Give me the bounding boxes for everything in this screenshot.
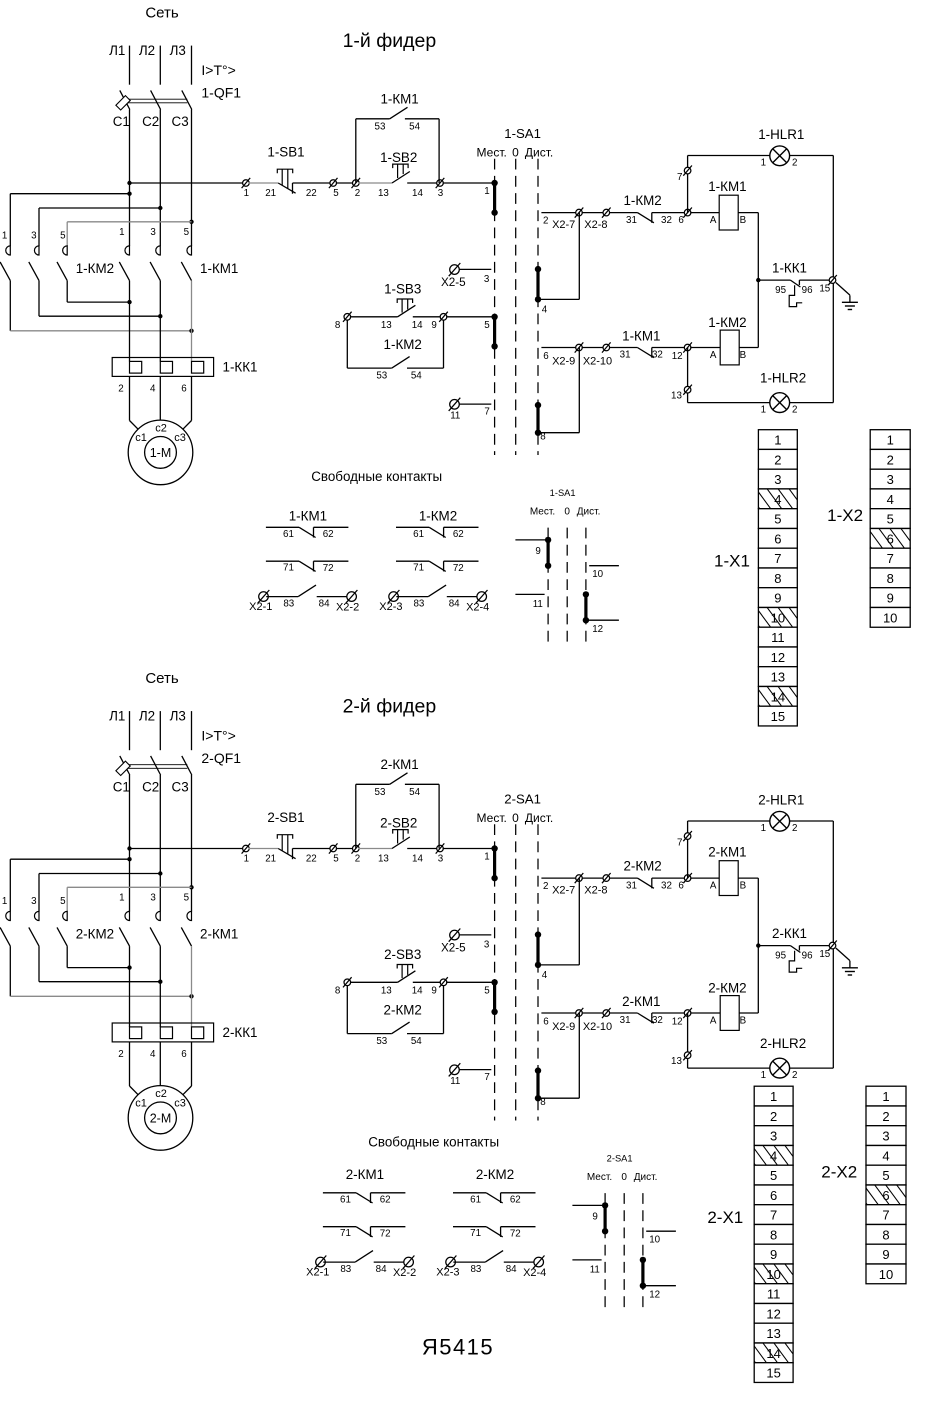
svg-text:13: 13 [671, 1056, 682, 1067]
svg-text:13: 13 [766, 1326, 780, 1341]
wire term7 branch [687, 156, 689, 213]
wire SB3 to term9 [413, 981, 441, 983]
wire to HLR1 [688, 820, 770, 822]
svg-text:2-КМ2: 2-КМ2 [708, 981, 746, 996]
wire C1 column [129, 775, 131, 911]
button 1-SB3 contact [398, 305, 416, 317]
terminal 7 [683, 166, 692, 176]
wire KM2 pole1 out [9, 281, 11, 331]
wire KM1 54 out [405, 118, 439, 120]
svg-text:5: 5 [333, 853, 339, 864]
wire KM2 54 out [407, 367, 444, 369]
svg-text:5: 5 [184, 893, 190, 904]
svg-text:2-КМ2: 2-КМ2 [476, 1167, 514, 1182]
wire SA1 row2 [541, 877, 576, 879]
switch 2-SA1 aux line Дист. [642, 1193, 644, 1307]
svg-text:2: 2 [792, 1070, 797, 1081]
svg-text:X2-3: X2-3 [379, 601, 402, 613]
switch 2-SA1 position line Мест. [494, 824, 496, 1120]
svg-text:2-SB1: 2-SB1 [267, 810, 304, 825]
wire KM2 pole5 feed [66, 222, 68, 246]
svg-text:2-КМ2: 2-КМ2 [384, 1002, 422, 1017]
button 2-SB1 actuator [277, 835, 292, 855]
svg-text:7: 7 [887, 551, 894, 566]
wire to SB1 [249, 848, 279, 850]
wire term3 to SA1 [443, 182, 495, 184]
svg-text:3: 3 [882, 1129, 889, 1144]
terminal 8 [343, 312, 352, 322]
wire SA1 aux 10 [589, 565, 619, 567]
wire KK1 to motor c3 [191, 1042, 193, 1086]
svg-text:2: 2 [887, 452, 894, 467]
wire SA1 aux 9 [572, 1204, 605, 1206]
svg-text:11: 11 [590, 1265, 600, 1276]
svg-text:83: 83 [283, 598, 294, 609]
terminal X2-10 [602, 1008, 611, 1018]
svg-text:13: 13 [381, 985, 392, 996]
svg-text:3: 3 [770, 1129, 777, 1144]
wire to HLR2 [688, 402, 770, 404]
svg-text:2-КМ1: 2-КМ1 [200, 927, 238, 942]
svg-text:31: 31 [626, 881, 637, 892]
svg-text:53: 53 [375, 121, 386, 132]
wire term8 to SB3 [350, 316, 398, 318]
wire coil KM2 up [757, 946, 759, 1013]
svg-text:1: 1 [244, 188, 249, 199]
wire motor c1 slant [130, 421, 139, 430]
wire KM2 pole3 out [38, 281, 40, 317]
wire KM2 pole1 to phase3 [10, 330, 191, 332]
wire branch down from term8 [346, 985, 348, 1034]
svg-text:61: 61 [283, 529, 294, 540]
terminal 2 [352, 178, 361, 188]
svg-text:95: 95 [775, 285, 786, 296]
svg-text:1-SA1: 1-SA1 [504, 126, 541, 141]
svg-text:5: 5 [60, 231, 66, 242]
svg-text:с3: с3 [174, 1098, 186, 1110]
svg-text:53: 53 [376, 1036, 387, 1047]
svg-text:1: 1 [244, 854, 249, 865]
svg-text:2-X2: 2-X2 [821, 1163, 857, 1182]
wire phase3 to KK1 [191, 946, 193, 1027]
svg-text:5: 5 [484, 986, 490, 997]
wire 2-КМ1 71 left [323, 1226, 356, 1228]
svg-text:84: 84 [449, 598, 460, 609]
svg-text:7: 7 [882, 1208, 889, 1223]
hatching cell 6 [852, 1184, 923, 1206]
svg-text:6: 6 [882, 1188, 889, 1203]
button 2-SB2 contact [392, 837, 410, 849]
contact 1-КК1 95-96 [789, 280, 802, 307]
svg-text:I>T°>: I>T°> [201, 728, 235, 744]
svg-text:22: 22 [306, 853, 317, 864]
svg-text:X2-10: X2-10 [583, 1021, 612, 1033]
wire branch down to term3 [438, 784, 440, 848]
svg-text:2-КК1: 2-КК1 [223, 1025, 258, 1040]
junction coils B [756, 943, 760, 947]
wire KM1 54 out [405, 783, 439, 785]
svg-text:1: 1 [887, 433, 894, 448]
terminal 1 [242, 843, 251, 853]
junction C1/control [127, 846, 131, 850]
terminal X2-3 [445, 1256, 457, 1269]
svg-text:12: 12 [771, 650, 785, 665]
wire coil KM2 out [739, 1012, 758, 1014]
terminal 8 [343, 977, 352, 987]
switch 2-SA1 contact 11-12 [640, 1257, 646, 1289]
wire SA1 aux 10 [646, 1230, 676, 1232]
svg-text:X2-9: X2-9 [552, 355, 575, 367]
wire KM2 pole1 feed [9, 859, 11, 911]
ground [842, 961, 858, 975]
svg-text:3: 3 [31, 896, 37, 907]
contact 1-КМ2 53-54 [392, 357, 410, 369]
svg-text:1: 1 [882, 1089, 889, 1104]
contact 1-КМ1 83-84 [298, 585, 316, 597]
wire C1 column [129, 110, 131, 246]
svg-text:Л1: Л1 [109, 709, 125, 724]
wire branch up from term2 [355, 784, 357, 848]
wire 1-КМ2 72 right [444, 560, 479, 562]
svg-text:X2-4: X2-4 [466, 602, 489, 614]
switch 2-SA1 contact 5-6 [491, 979, 497, 1015]
terminal X2-5 [449, 929, 461, 942]
wire KM1 32 to term12 [652, 1012, 688, 1014]
svg-text:2-КМ1: 2-КМ1 [708, 845, 746, 860]
wire C2 to KM2 pole3 [39, 207, 160, 209]
svg-text:72: 72 [510, 1228, 521, 1239]
button 1-SB1 contact [278, 183, 295, 194]
svg-text:9: 9 [887, 591, 894, 606]
svg-text:12: 12 [592, 624, 603, 635]
svg-text:2: 2 [543, 216, 548, 227]
wire row8 up to row6 [578, 348, 580, 433]
svg-text:1-QF1: 1-QF1 [201, 84, 241, 100]
wire coil KM1 out [738, 212, 758, 214]
svg-text:9: 9 [431, 320, 436, 331]
wire right rail [832, 156, 834, 403]
svg-text:8: 8 [335, 320, 341, 331]
svg-text:Л3: Л3 [170, 43, 186, 58]
switch 2-SA1 contact 7-8 [535, 1067, 541, 1101]
hatching cell 4 [740, 1145, 811, 1167]
wire 1-КМ1 71 left [266, 560, 299, 562]
svg-text:15: 15 [766, 1366, 780, 1381]
svg-text:1-КК1: 1-КК1 [772, 261, 807, 276]
svg-text:4: 4 [542, 970, 548, 981]
svg-text:6: 6 [543, 1017, 549, 1028]
terminal X2-1 [258, 590, 270, 603]
svg-text:61: 61 [470, 1194, 481, 1205]
wire KM2 pole5 to phase1 [67, 967, 129, 969]
svg-text:11: 11 [533, 599, 543, 610]
wire term11 to SA1 [459, 1069, 491, 1071]
wire SA1 aux 9 [515, 539, 548, 541]
svg-text:13: 13 [771, 670, 785, 685]
wire KM2 pole5 feed [66, 887, 68, 911]
svg-text:2: 2 [774, 452, 781, 467]
svg-text:4: 4 [542, 305, 548, 316]
terminal 6 [683, 873, 692, 883]
wire right rail [832, 821, 834, 1068]
svg-text:4: 4 [150, 1049, 156, 1060]
terminal X2-9 [575, 1008, 584, 1018]
svg-text:84: 84 [376, 1264, 387, 1275]
svg-text:71: 71 [340, 1228, 351, 1239]
hatching cell 14 [740, 1342, 811, 1364]
wire phase3 to KK1 [191, 281, 193, 362]
hatching cell 4 [744, 488, 815, 510]
wire term8 to SB3 [350, 981, 398, 983]
wire C1 to KM2 pole1 [10, 858, 129, 860]
svg-text:2-SA1: 2-SA1 [607, 1154, 633, 1164]
wire X2-7 to X2-8 [582, 877, 604, 879]
switch 1-SA1 aux line Мест. [547, 528, 549, 642]
svg-text:X2-8: X2-8 [584, 885, 607, 897]
terminal 3 [436, 843, 445, 853]
wire coil KM1 down [757, 213, 759, 281]
wire motor c1 slant [130, 1086, 139, 1095]
wire KM2 pole1 feed [9, 194, 11, 246]
terminal 7 [683, 831, 692, 841]
svg-text:83: 83 [470, 1264, 481, 1275]
terminal X2-2 [403, 1256, 415, 1269]
svg-text:В: В [740, 350, 747, 361]
junction C2/KM2 feed [158, 206, 162, 210]
svg-text:83: 83 [413, 598, 424, 609]
svg-text:2: 2 [355, 853, 360, 864]
contact 1-КМ1 31-32 [637, 348, 654, 358]
svg-text:3: 3 [31, 231, 37, 242]
terminal X2-1 [315, 1256, 327, 1269]
svg-text:2: 2 [882, 1109, 889, 1124]
svg-text:Сеть: Сеть [145, 670, 179, 687]
svg-text:X2-7: X2-7 [552, 219, 575, 231]
terminal X2-3 [388, 590, 400, 603]
wire KK1 to motor c2 [159, 1042, 161, 1086]
button 2-SB2 actuator [393, 830, 408, 844]
svg-text:2-КМ2: 2-КМ2 [76, 927, 114, 942]
svg-text:7: 7 [484, 1072, 489, 1083]
svg-text:12: 12 [672, 1017, 683, 1028]
wire KM2 pole1 to phase3 [10, 995, 191, 997]
wire SB1 to term5 [293, 182, 331, 184]
svg-text:9: 9 [774, 591, 781, 606]
svg-text:1: 1 [770, 1089, 777, 1104]
wire 2-КМ2 62 right [501, 1192, 536, 1194]
terminal 9 [439, 312, 448, 322]
wire HLR1 to rail [790, 820, 834, 822]
svg-text:83: 83 [340, 1264, 351, 1275]
wire to KM1 53 [356, 783, 390, 785]
svg-text:2: 2 [118, 1049, 123, 1060]
svg-text:3: 3 [150, 227, 156, 238]
svg-text:5: 5 [60, 896, 66, 907]
terminal 5 [329, 843, 338, 853]
junction phase2 [158, 314, 162, 318]
wire term3 to SA1 [443, 848, 495, 850]
svg-text:5: 5 [484, 320, 490, 331]
svg-text:2: 2 [792, 404, 797, 415]
svg-text:1-КМ2: 1-КМ2 [76, 261, 114, 276]
wire KM2 pole3 feed [38, 874, 40, 912]
terminal 6 [683, 208, 692, 218]
wire 1-КМ2 83 left [396, 596, 428, 598]
wire KM2 32 to term6 [652, 212, 688, 214]
wire KM2 pole3 out [38, 946, 40, 982]
contactor 1-КМ2 pole 3 [29, 246, 39, 281]
switch 1-SA1 position line 0 [515, 159, 517, 455]
contactor 1-КМ2 pole 5 [57, 246, 67, 281]
wire SB1 to term5 [293, 848, 331, 850]
switch 1-SA1 contact 5-6 [491, 314, 497, 350]
coil 2-КМ2 [720, 996, 739, 1031]
svg-text:10: 10 [766, 1267, 780, 1282]
wire 1-КМ1 83 left [266, 596, 298, 598]
wire 2-КМ1 72 right [371, 1226, 406, 1228]
wire branch up to term9 [443, 985, 445, 1034]
svg-text:0: 0 [512, 146, 519, 160]
wire coil KM2 up [757, 280, 759, 347]
switch 1-SA1 contact 9-10 [545, 537, 551, 569]
wire coil KM1 out [738, 877, 758, 879]
wire X2-9 to X2-10 [582, 1012, 604, 1014]
motor 1-M [128, 420, 193, 485]
wire to SB2 [359, 848, 393, 850]
terminal X2-5 [449, 263, 461, 276]
wire KK1 to motor c1 [129, 376, 131, 420]
svg-text:4: 4 [882, 1148, 889, 1163]
svg-text:0: 0 [564, 506, 570, 517]
wire KM2 pole3 to phase2 [39, 981, 160, 983]
svg-text:2-QF1: 2-QF1 [201, 750, 241, 766]
wire coil KM1 down [757, 878, 759, 946]
svg-text:1: 1 [2, 231, 7, 242]
svg-text:9: 9 [431, 985, 436, 996]
switch 2-SA1 contact 3-4 [535, 931, 541, 968]
svg-text:21: 21 [265, 853, 276, 864]
wire to SB2 [359, 182, 393, 184]
svg-text:7: 7 [677, 172, 682, 183]
svg-text:62: 62 [453, 529, 464, 540]
hatching cell 10 [744, 607, 815, 629]
wire 2-КМ2 71 left [453, 1226, 486, 1228]
svg-text:72: 72 [453, 563, 464, 574]
wire SA1 aux 11 [515, 593, 544, 595]
motor 2-M [128, 1086, 193, 1151]
svg-text:2-SB3: 2-SB3 [384, 947, 421, 962]
terminal 3 [436, 178, 445, 188]
svg-text:1-SA1: 1-SA1 [550, 488, 576, 498]
svg-text:4: 4 [770, 1148, 777, 1163]
terminal 2 [352, 843, 361, 853]
wire C3 column [191, 775, 193, 911]
svg-text:1-SB1: 1-SB1 [267, 145, 304, 160]
svg-text:X2-3: X2-3 [436, 1267, 459, 1279]
svg-text:71: 71 [283, 563, 294, 574]
svg-text:0: 0 [621, 1172, 627, 1183]
svg-text:13: 13 [378, 853, 389, 864]
wire SA1 row8 [538, 432, 579, 434]
wire branch down from term8 [346, 320, 348, 369]
wire C2 column [159, 775, 161, 911]
wire KK1 96 to term15 [799, 945, 829, 947]
svg-text:8: 8 [882, 1227, 889, 1242]
wire to HLR1 [688, 155, 770, 157]
svg-text:32: 32 [652, 349, 663, 360]
svg-text:6: 6 [770, 1188, 777, 1203]
svg-text:2: 2 [543, 881, 548, 892]
svg-text:95: 95 [775, 950, 786, 961]
wire phase2 to KK1 [159, 281, 161, 362]
svg-text:1: 1 [484, 186, 489, 197]
svg-text:Л3: Л3 [170, 709, 186, 724]
svg-text:1-HLR1: 1-HLR1 [758, 127, 804, 142]
wire Л1 incoming [129, 46, 131, 85]
hatching cell 14 [744, 686, 815, 708]
wire SA1 aux 11 [572, 1259, 601, 1261]
svg-text:12: 12 [766, 1306, 780, 1321]
wire term9 to SA1 [446, 981, 494, 983]
svg-text:3: 3 [484, 939, 490, 950]
svg-text:X2-4: X2-4 [523, 1267, 546, 1279]
wire C2 column [159, 110, 161, 246]
button 1-SB3 actuator [397, 299, 412, 313]
svg-text:Мест.: Мест. [477, 146, 507, 160]
wire to KM2 53 [347, 367, 392, 369]
svg-text:7: 7 [774, 551, 781, 566]
contact 1-КМ2 31-32 [637, 213, 654, 223]
svg-text:84: 84 [506, 1264, 517, 1275]
svg-text:2: 2 [355, 188, 360, 199]
terminal 15 [828, 941, 837, 951]
svg-text:10: 10 [879, 1267, 893, 1282]
wire term12 to coil KM2 [690, 347, 720, 349]
contact 2-КМ2 31-32 [637, 878, 654, 888]
svg-text:6: 6 [678, 215, 684, 226]
wire row4 up to row2 [578, 878, 580, 965]
wire 1-КМ1 72 right [314, 560, 349, 562]
svg-text:32: 32 [661, 881, 672, 892]
svg-text:X2-1: X2-1 [249, 601, 272, 613]
junction phase3 [189, 994, 193, 998]
svg-text:Мест.: Мест. [477, 811, 507, 825]
svg-text:2-й фидер: 2-й фидер [343, 696, 437, 718]
wire control from C1 [130, 182, 246, 184]
wire Л2 incoming [159, 46, 161, 85]
wire phase1 to KK1 [129, 281, 131, 362]
switch 1-SA1 position line Дист. [537, 159, 539, 455]
svg-text:1-КМ1: 1-КМ1 [708, 179, 746, 194]
svg-text:72: 72 [323, 563, 334, 574]
svg-text:1: 1 [119, 893, 124, 904]
svg-text:X2-7: X2-7 [552, 885, 575, 897]
wire 1-КМ2 62 right [444, 526, 479, 528]
svg-text:96: 96 [802, 285, 813, 296]
wire X2-10 to KM1 31 [609, 347, 637, 349]
terminal block 2-X2 [866, 1086, 906, 1284]
svg-text:2: 2 [792, 157, 797, 168]
wire motor c3 slant [183, 421, 192, 430]
coil 1-КМ2 [720, 330, 739, 365]
svg-text:5: 5 [774, 512, 781, 527]
contact 2-КК1 95-96 [789, 946, 802, 973]
contact 1-КМ2 71-72 [429, 561, 446, 571]
junction phase2 [158, 980, 162, 984]
switch 2-SA1 position line 0 [515, 824, 517, 1120]
junction phase1 [127, 965, 131, 969]
svg-text:4: 4 [887, 492, 894, 507]
